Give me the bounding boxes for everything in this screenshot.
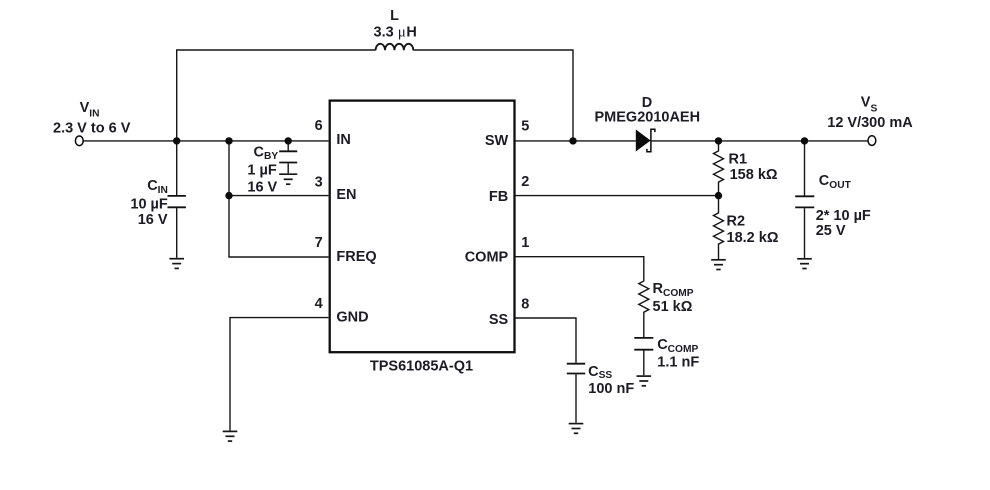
svg-text:18.2 kΩ: 18.2 kΩ: [727, 230, 779, 246]
svg-text:3.3 μH: 3.3 μH: [374, 25, 417, 41]
svg-text:SS: SS: [489, 312, 509, 328]
svg-text:R2: R2: [727, 214, 746, 230]
svg-text:25 V: 25 V: [816, 223, 846, 239]
svg-text:5: 5: [521, 118, 529, 134]
svg-text:2: 2: [521, 174, 529, 190]
svg-text:100 nF: 100 nF: [588, 381, 634, 397]
svg-text:51 kΩ: 51 kΩ: [653, 299, 693, 315]
svg-text:SW: SW: [485, 133, 509, 149]
svg-text:2* 10 µF: 2* 10 µF: [816, 208, 871, 224]
svg-text:FREQ: FREQ: [336, 249, 376, 265]
svg-text:10 µF: 10 µF: [130, 197, 168, 213]
svg-text:2.3 V to 6 V: 2.3 V to 6 V: [53, 121, 131, 137]
svg-text:D: D: [642, 95, 652, 111]
svg-text:GND: GND: [336, 310, 368, 326]
svg-text:PMEG2010AEH: PMEG2010AEH: [595, 110, 701, 126]
svg-text:RCOMP: RCOMP: [653, 281, 694, 299]
svg-text:8: 8: [521, 297, 529, 313]
svg-text:R1: R1: [729, 152, 748, 168]
svg-text:16 V: 16 V: [247, 179, 277, 195]
svg-text:1.1 nF: 1.1 nF: [657, 354, 699, 370]
svg-text:TPS61085A-Q1: TPS61085A-Q1: [370, 359, 473, 375]
svg-text:CBY: CBY: [254, 145, 279, 163]
svg-text:7: 7: [315, 235, 323, 251]
svg-text:EN: EN: [336, 187, 356, 203]
svg-text:16 V: 16 V: [138, 212, 168, 228]
svg-text:12 V/300 mA: 12 V/300 mA: [827, 115, 913, 131]
svg-text:158 kΩ: 158 kΩ: [730, 167, 778, 183]
svg-text:1: 1: [521, 235, 529, 251]
svg-text:CSS: CSS: [588, 364, 612, 381]
svg-text:4: 4: [315, 296, 323, 312]
svg-text:VIN: VIN: [80, 100, 100, 119]
svg-text:CCOMP: CCOMP: [657, 337, 698, 355]
svg-text:FB: FB: [489, 189, 508, 205]
svg-text:VS: VS: [861, 95, 878, 115]
svg-text:COMP: COMP: [465, 250, 509, 266]
svg-text:1 µF: 1 µF: [247, 163, 276, 179]
svg-text:IN: IN: [336, 132, 351, 148]
svg-text:CIN: CIN: [147, 178, 168, 196]
svg-text:COUT: COUT: [819, 173, 852, 191]
svg-text:L: L: [390, 8, 399, 24]
svg-text:3: 3: [315, 174, 323, 190]
svg-text:6: 6: [315, 118, 323, 134]
